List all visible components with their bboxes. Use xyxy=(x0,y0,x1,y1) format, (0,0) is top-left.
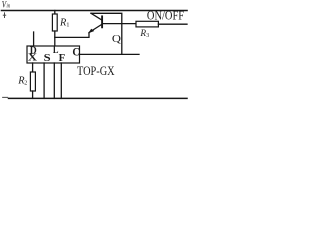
transistor Q emitter arrowhead xyxy=(88,29,94,34)
IC U1 TOP-GX box xyxy=(27,46,80,63)
wire C pin xyxy=(80,53,140,55)
svg-text:in: in xyxy=(7,3,11,10)
svg-text:F: F xyxy=(59,53,66,64)
wire collector to vertical drop xyxy=(91,13,122,54)
wire F pin to bottom rail xyxy=(60,63,62,98)
wire S pin to bottom rail xyxy=(43,63,45,98)
wire S2 pin to bottom rail xyxy=(53,63,55,98)
node Vin- bottom rail xyxy=(9,97,188,99)
wire R1 bottom to L pin xyxy=(54,31,56,46)
svg-text:X: X xyxy=(28,52,37,64)
wire D pin stub xyxy=(33,32,35,46)
resistor R1 xyxy=(52,14,57,31)
wire X pin to R2 xyxy=(32,63,34,72)
transistor Q collector diagonal xyxy=(91,13,102,19)
svg-text:2: 2 xyxy=(24,80,27,86)
minus terminal xyxy=(3,96,8,98)
wire R2 to bottom rail xyxy=(32,91,34,98)
transistor Q emitter diagonal xyxy=(89,25,101,33)
transistor Q base bar xyxy=(101,16,103,27)
resistor R2 xyxy=(30,72,35,91)
plus terminal xyxy=(3,12,6,18)
svg-text:3: 3 xyxy=(146,33,149,39)
svg-text:1: 1 xyxy=(66,21,69,28)
wire R3 to ON/OFF xyxy=(158,23,187,25)
svg-text:Q: Q xyxy=(112,33,121,45)
wire base to R3 xyxy=(103,23,136,25)
node Vin+ top rail xyxy=(2,10,188,12)
svg-text:S: S xyxy=(44,52,51,64)
wire L-node branch toward emitter xyxy=(55,33,89,38)
wire rail to R1 xyxy=(54,11,56,15)
svg-text:TOP-GX: TOP-GX xyxy=(77,63,115,78)
svg-text:ON/OFF: ON/OFF xyxy=(147,9,184,23)
svg-text:C: C xyxy=(72,46,80,58)
resistor R3 xyxy=(136,21,158,27)
